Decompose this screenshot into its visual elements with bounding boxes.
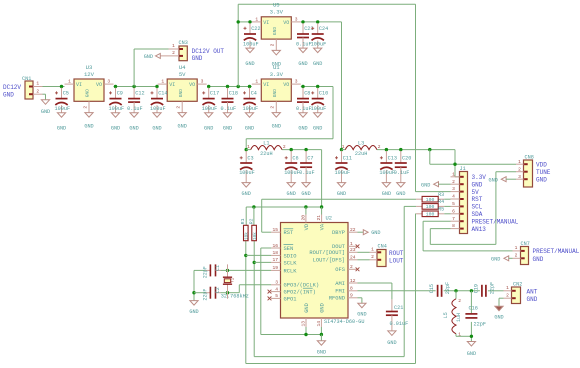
- svg-text:1: 1: [371, 247, 374, 253]
- svg-text:1: 1: [518, 159, 521, 165]
- svg-text:VA: VA: [320, 223, 326, 230]
- svg-text:24: 24: [350, 255, 356, 261]
- svg-text:C23: C23: [304, 26, 313, 32]
- wire L5 C16 to ground: [456, 291, 473, 342]
- svg-text:100uF: 100uF: [243, 106, 259, 112]
- svg-text:PRESET/MANUAL: PRESET/MANUAL: [472, 218, 519, 225]
- crystal Y1: [221, 277, 249, 300]
- svg-text:C8: C8: [304, 91, 310, 97]
- svg-text:SDIO: SDIO: [284, 253, 297, 259]
- svg-text:9: 9: [350, 293, 353, 299]
- svg-text:RFGND: RFGND: [329, 296, 345, 302]
- svg-text:0.01uF: 0.01uF: [390, 321, 409, 327]
- connector CN1: [22, 76, 43, 99]
- svg-text:GND: GND: [204, 126, 213, 132]
- inductor L5: [443, 298, 462, 338]
- svg-text:23: 23: [350, 247, 356, 253]
- svg-text:C2: C2: [215, 287, 221, 293]
- svg-text:GND: GND: [357, 311, 366, 317]
- wire U1 3.3V output to L1: [246, 85, 333, 150]
- svg-text:GND: GND: [245, 126, 254, 132]
- svg-text:GND: GND: [472, 181, 483, 188]
- wire PRESET/MANUAL to CN7: [423, 221, 512, 251]
- svg-text:C24: C24: [319, 26, 328, 32]
- connector CN3: [160, 40, 188, 61]
- wire VDD to CN8: [430, 150, 516, 166]
- svg-text:AMI: AMI: [335, 281, 345, 287]
- wire stubs CN8: [516, 159, 524, 180]
- svg-text:100uF: 100uF: [202, 106, 218, 112]
- svg-text:GND: GND: [272, 27, 278, 36]
- svg-text:CN7: CN7: [521, 241, 530, 247]
- svg-text:U2: U2: [326, 216, 332, 222]
- no-connect DOUT: [356, 244, 360, 248]
- svg-text:GND: GND: [41, 109, 50, 115]
- wire stubs J1: [451, 171, 460, 229]
- svg-text:R2: R2: [249, 218, 255, 224]
- svg-text:22pF: 22pF: [203, 266, 209, 278]
- svg-text:100uF: 100uF: [243, 41, 259, 47]
- svg-text:GND: GND: [272, 89, 278, 98]
- svg-text:5V: 5V: [472, 189, 480, 196]
- svg-text:5: 5: [452, 201, 455, 207]
- svg-text:LOUT/[DFS]: LOUT/[DFS]: [313, 258, 345, 264]
- svg-text:1: 1: [247, 144, 250, 150]
- capacitor C17: [202, 88, 220, 132]
- svg-text:GND: GND: [489, 177, 498, 183]
- svg-text:GND: GND: [319, 303, 325, 313]
- svg-text:R5: R5: [438, 207, 444, 213]
- no-connect GPO1: [268, 297, 272, 301]
- svg-text:C11: C11: [343, 156, 352, 162]
- svg-text:3: 3: [452, 186, 455, 192]
- svg-text:22pF: 22pF: [489, 282, 495, 294]
- capacitor C12: [127, 88, 145, 132]
- regulator U1: [252, 64, 301, 130]
- resistor R3: [416, 192, 444, 203]
- capacitor C7: [299, 151, 315, 197]
- capacitor C5: [55, 88, 71, 132]
- ground CN1: [41, 100, 50, 115]
- connector CN4: [377, 243, 387, 266]
- svg-text:2: 2: [176, 106, 182, 109]
- wire AMI to C21: [358, 283, 392, 299]
- svg-text:100uF: 100uF: [239, 170, 255, 176]
- svg-text:1: 1: [68, 79, 71, 85]
- svg-text:2: 2: [350, 264, 353, 270]
- svg-text:15: 15: [272, 227, 278, 233]
- svg-text:3: 3: [275, 280, 278, 286]
- resistor R4: [416, 199, 444, 210]
- svg-text:L1: L1: [263, 140, 269, 146]
- svg-text:100: 100: [426, 204, 435, 210]
- capacitor C1: [203, 264, 221, 278]
- svg-text:1: 1: [255, 16, 258, 22]
- svg-text:GND: GND: [337, 191, 346, 197]
- svg-text:VI: VI: [263, 20, 269, 26]
- svg-text:GPO3/(DCLK): GPO3/(DCLK): [284, 283, 320, 289]
- svg-text:1uH: 1uH: [456, 313, 462, 322]
- svg-text:22pF: 22pF: [474, 322, 486, 328]
- regulator U4: [158, 64, 207, 130]
- svg-text:0.1uF: 0.1uF: [299, 170, 315, 176]
- svg-text:GND: GND: [223, 126, 232, 132]
- capacitor C16: [465, 306, 486, 328]
- ground flag CN7: [491, 256, 513, 262]
- svg-text:GND: GND: [242, 191, 251, 197]
- svg-text:4: 4: [452, 194, 455, 200]
- svg-text:3: 3: [518, 174, 521, 180]
- svg-text:2: 2: [371, 254, 374, 260]
- wire RFGND to ground: [358, 298, 362, 303]
- svg-text:Y1: Y1: [231, 277, 236, 283]
- connector CN2: [512, 282, 523, 304]
- svg-text:2: 2: [458, 298, 461, 304]
- svg-text:GND: GND: [3, 92, 14, 99]
- svg-text:6: 6: [452, 208, 455, 214]
- resistor R5: [416, 207, 444, 218]
- svg-text:CN3: CN3: [179, 40, 188, 46]
- svg-text:21: 21: [316, 215, 322, 221]
- svg-text:22uH: 22uH: [355, 151, 367, 157]
- svg-text:CN2: CN2: [513, 282, 522, 288]
- svg-text:L5: L5: [443, 312, 449, 318]
- svg-text:3: 3: [107, 79, 110, 85]
- svg-text:GND: GND: [189, 309, 198, 315]
- svg-text:2: 2: [270, 43, 276, 46]
- svg-text:C22: C22: [251, 26, 260, 32]
- svg-text:PRESET/MANUAL: PRESET/MANUAL: [533, 248, 580, 255]
- capacitor C20: [394, 151, 412, 197]
- svg-text:GND: GND: [371, 230, 380, 236]
- svg-text:GND: GND: [129, 126, 138, 132]
- svg-text:100uF: 100uF: [150, 106, 166, 112]
- svg-text:GND: GND: [304, 303, 310, 313]
- svg-text:C1: C1: [215, 265, 221, 271]
- svg-text:R4: R4: [438, 199, 444, 205]
- capacitor C14: [150, 88, 168, 132]
- svg-text:100uF: 100uF: [335, 170, 351, 176]
- svg-text:1: 1: [506, 285, 509, 291]
- svg-text:C12: C12: [135, 91, 144, 97]
- svg-text:4: 4: [275, 286, 278, 292]
- svg-text:GND: GND: [421, 182, 430, 188]
- svg-text:12: 12: [350, 278, 356, 284]
- capacitor C4: [243, 88, 259, 132]
- connector CN7: [521, 241, 530, 265]
- svg-text:SCL: SCL: [472, 204, 483, 211]
- svg-text:10k: 10k: [244, 232, 249, 240]
- wire GPO3 to crystal: [226, 285, 271, 295]
- wire DBYP to ground flag: [358, 231, 364, 233]
- svg-text:VO: VO: [189, 82, 195, 88]
- svg-text:16: 16: [272, 243, 278, 249]
- svg-text:GND: GND: [301, 191, 310, 197]
- svg-text:VO: VO: [283, 20, 289, 26]
- svg-text:14: 14: [316, 321, 322, 327]
- no-connect GPO2: [268, 290, 272, 294]
- wire ground pins 13 14: [304, 327, 323, 341]
- capacitor C22: [243, 23, 261, 67]
- svg-text:OFS: OFS: [335, 267, 345, 273]
- svg-text:19: 19: [272, 265, 278, 271]
- svg-text:GND: GND: [245, 61, 254, 67]
- svg-text:2: 2: [172, 50, 175, 56]
- svg-text:C10: C10: [319, 91, 328, 97]
- svg-text:GND: GND: [313, 61, 322, 67]
- svg-text:C16: C16: [469, 306, 478, 312]
- connector J1: [460, 166, 468, 234]
- svg-text:2: 2: [36, 88, 39, 94]
- svg-text:SI4734-D60-GU: SI4734-D60-GU: [324, 319, 364, 325]
- wire LOUT to CN4: [358, 259, 370, 261]
- capacitor C18: [221, 88, 239, 132]
- svg-text:1: 1: [172, 43, 175, 49]
- svg-text:ROUT: ROUT: [389, 250, 404, 257]
- svg-text:RST: RST: [284, 230, 294, 236]
- svg-text:VO: VO: [283, 82, 289, 88]
- svg-text:100: 100: [426, 212, 435, 218]
- svg-text:GND: GND: [536, 176, 547, 183]
- wire SEN to ground: [261, 248, 306, 335]
- svg-text:AN13: AN13: [472, 226, 487, 233]
- svg-text:GND: GND: [287, 191, 296, 197]
- svg-text:0.1uF: 0.1uF: [394, 170, 410, 176]
- capacitor C8: [296, 88, 312, 132]
- capacitor C3: [239, 151, 255, 197]
- svg-text:GPO1: GPO1: [284, 296, 297, 302]
- svg-text:100uF: 100uF: [109, 106, 125, 112]
- wire 5V top frame to J1 pin3: [238, 4, 450, 191]
- svg-text:2: 2: [283, 144, 286, 150]
- svg-text:1: 1: [452, 171, 455, 177]
- svg-text:13: 13: [301, 321, 307, 327]
- ground flag CN3: [144, 53, 161, 60]
- svg-text:1: 1: [458, 332, 461, 338]
- svg-text:0.1uF: 0.1uF: [127, 106, 143, 112]
- svg-text:0.1uF: 0.1uF: [221, 106, 237, 112]
- svg-text:1: 1: [255, 79, 258, 85]
- capacitor C2: [203, 287, 221, 301]
- svg-text:R1: R1: [240, 218, 246, 224]
- svg-text:GND: GND: [272, 124, 281, 130]
- wire U5 input rail: [237, 20, 252, 23]
- wire 5V riser to U5: [237, 22, 239, 87]
- ground CN2: [494, 306, 503, 320]
- wire L3 node and 3.3V rail: [340, 148, 460, 177]
- svg-text:1: 1: [350, 241, 353, 247]
- svg-text:C17: C17: [210, 91, 219, 97]
- svg-text:GND: GND: [467, 351, 476, 357]
- svg-text:1: 1: [515, 245, 518, 251]
- capacitor C19: [473, 282, 495, 297]
- svg-text:RCLK: RCLK: [284, 268, 298, 274]
- svg-text:GND: GND: [84, 124, 93, 130]
- svg-text:0.1uF: 0.1uF: [296, 106, 312, 112]
- capacitor C15: [429, 282, 451, 297]
- wire CN1 pin2 to ground: [43, 94, 46, 100]
- ground flag DBYP: [363, 230, 380, 236]
- inductor L1: [247, 140, 286, 157]
- svg-text:GND: GND: [317, 349, 326, 355]
- wire 12V tap to CN3: [134, 49, 168, 87]
- svg-text:22: 22: [350, 227, 356, 233]
- svg-text:1: 1: [36, 81, 39, 87]
- ground RFGND: [357, 303, 366, 317]
- svg-text:GND: GND: [144, 54, 153, 60]
- svg-text:3.3V: 3.3V: [270, 71, 284, 78]
- svg-text:GND: GND: [192, 55, 203, 62]
- ground flag J1: [421, 182, 451, 189]
- op-amp U2 Si4734: [271, 215, 364, 328]
- svg-text:5: 5: [275, 293, 278, 299]
- svg-text:2: 2: [378, 144, 381, 150]
- svg-text:GND: GND: [152, 126, 161, 132]
- svg-text:0.1uF: 0.1uF: [296, 41, 312, 47]
- svg-text:GND: GND: [533, 256, 544, 263]
- svg-text:J1: J1: [460, 166, 466, 172]
- capacitor C11: [335, 151, 353, 197]
- wire RST net: [262, 199, 451, 232]
- svg-text:LOUT: LOUT: [389, 257, 404, 264]
- svg-text:C20: C20: [402, 156, 411, 162]
- svg-text:5V: 5V: [179, 71, 186, 78]
- svg-text:VI: VI: [76, 82, 82, 88]
- svg-text:DC12V OUT: DC12V OUT: [192, 48, 225, 55]
- svg-text:8: 8: [452, 223, 455, 229]
- svg-text:12V: 12V: [84, 71, 95, 78]
- capacitor C6: [284, 151, 300, 197]
- svg-text:10k: 10k: [253, 232, 258, 240]
- svg-text:100uF: 100uF: [311, 41, 327, 47]
- svg-text:8: 8: [350, 286, 353, 292]
- svg-text:7: 7: [452, 216, 455, 222]
- svg-text:ANT: ANT: [527, 289, 538, 296]
- svg-text:GND: GND: [178, 89, 184, 98]
- no-connect OFS: [356, 267, 360, 271]
- svg-text:22pF: 22pF: [445, 282, 451, 294]
- capacitor C9: [109, 88, 125, 132]
- svg-text:VO: VO: [96, 82, 102, 88]
- ground antenna filter: [467, 342, 476, 357]
- regulator U3: [65, 64, 114, 130]
- wire stubs CN2: [504, 285, 512, 298]
- resistor R2: [249, 218, 258, 240]
- svg-text:GND: GND: [57, 126, 66, 132]
- svg-text:3: 3: [201, 79, 204, 85]
- svg-text:GND: GND: [382, 191, 391, 197]
- svg-text:C5: C5: [63, 91, 69, 97]
- svg-text:1: 1: [161, 79, 164, 85]
- capacitor C24: [311, 23, 329, 67]
- svg-text:GND: GND: [178, 124, 187, 130]
- wire stubs CN7: [513, 245, 521, 259]
- svg-text:22pF: 22pF: [203, 289, 209, 301]
- net labels J1: [472, 174, 519, 233]
- svg-text:C3: C3: [247, 156, 253, 162]
- svg-text:CN1: CN1: [22, 76, 31, 82]
- svg-text:3.3V: 3.3V: [472, 174, 487, 181]
- svg-text:18: 18: [272, 250, 278, 256]
- wire 5V rail U4 output: [207, 85, 252, 88]
- wire 12V input rail: [43, 86, 65, 88]
- svg-text:2: 2: [82, 106, 88, 109]
- svg-text:TUNE: TUNE: [536, 169, 551, 176]
- capacitor C23: [296, 23, 314, 67]
- svg-text:GND: GND: [85, 89, 91, 98]
- ground crystal: [189, 301, 198, 315]
- svg-text:2: 2: [515, 252, 518, 258]
- wire TUNE net: [430, 172, 516, 245]
- net labels CN8: [536, 161, 551, 183]
- svg-text:GND: GND: [298, 61, 307, 67]
- connector CN8: [524, 154, 534, 187]
- svg-text:GND: GND: [494, 314, 503, 320]
- svg-text:DC12V: DC12V: [3, 84, 21, 91]
- svg-text:100uF: 100uF: [55, 106, 71, 112]
- svg-text:CN4: CN4: [378, 243, 387, 249]
- capacitor C13: [379, 151, 397, 197]
- svg-text:GND: GND: [387, 340, 396, 346]
- wire ROUT to CN4: [358, 251, 370, 253]
- svg-text:VI: VI: [263, 82, 269, 88]
- svg-text:C6: C6: [292, 156, 298, 162]
- svg-text:100uF: 100uF: [284, 170, 300, 176]
- svg-text:C4: C4: [251, 91, 257, 97]
- svg-text:C15: C15: [429, 284, 435, 293]
- svg-text:CN8: CN8: [525, 154, 534, 160]
- wire VD VA supply rail: [246, 205, 323, 225]
- svg-text:C13: C13: [388, 156, 397, 162]
- svg-text:VI: VI: [169, 82, 175, 88]
- svg-text:C9: C9: [117, 91, 123, 97]
- svg-text:DBYP: DBYP: [332, 230, 345, 236]
- svg-text:GND: GND: [396, 191, 405, 197]
- svg-text:GND: GND: [298, 126, 307, 132]
- wire SDIO net: [244, 214, 450, 364]
- svg-text:VD: VD: [304, 224, 310, 230]
- svg-text:17: 17: [272, 257, 278, 263]
- svg-text:L3: L3: [358, 140, 364, 146]
- wire 12V rail U3 output: [60, 85, 159, 88]
- wire CN2 pin2 to ground: [499, 298, 504, 306]
- svg-text:3: 3: [295, 16, 298, 22]
- svg-text:2: 2: [518, 166, 521, 172]
- resistor R1: [240, 218, 249, 240]
- svg-text:C19: C19: [473, 284, 479, 293]
- svg-text:VDD: VDD: [536, 161, 547, 168]
- capacitor C10: [311, 88, 329, 132]
- wire SCLK net: [253, 206, 451, 356]
- svg-text:SCLK: SCLK: [284, 260, 298, 266]
- svg-text:100: 100: [426, 197, 435, 203]
- svg-text:2: 2: [506, 292, 509, 298]
- svg-text:GND: GND: [527, 296, 538, 303]
- wire stubs CN4: [370, 247, 378, 261]
- wire L1 node and output rail: [245, 148, 322, 207]
- svg-text:R3: R3: [438, 192, 444, 198]
- svg-text:100uF: 100uF: [379, 170, 395, 176]
- svg-text:3.3V: 3.3V: [270, 9, 284, 16]
- svg-text:RST: RST: [472, 196, 483, 203]
- wire FMI to antenna network: [358, 289, 504, 292]
- svg-text:22uH: 22uH: [260, 151, 272, 157]
- wire crystal to ground: [192, 264, 227, 300]
- svg-text:GND: GND: [272, 61, 281, 67]
- svg-text:20: 20: [301, 215, 307, 221]
- svg-text:2: 2: [270, 106, 276, 109]
- svg-text:C7: C7: [307, 156, 313, 162]
